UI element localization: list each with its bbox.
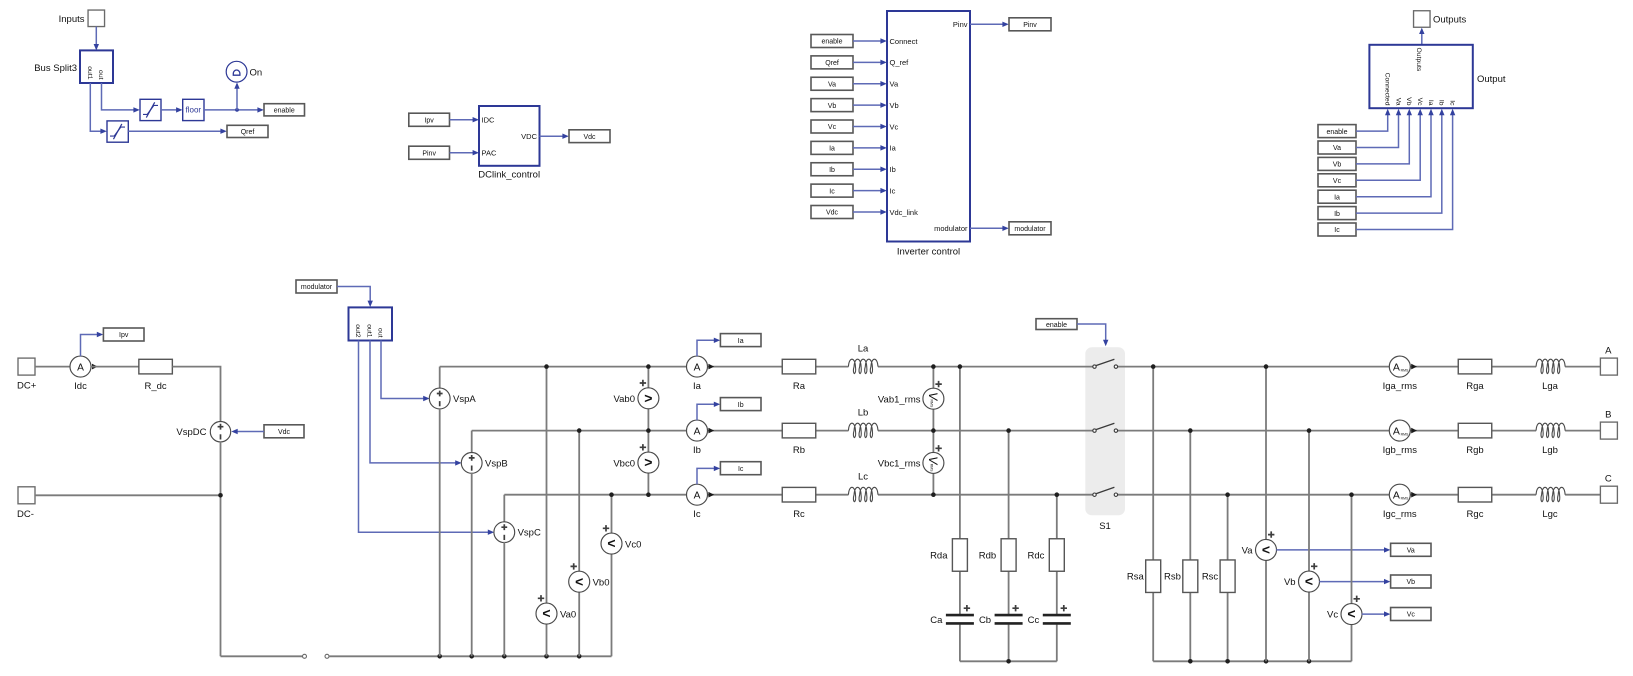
current arrow after Igc_rms: [1411, 492, 1417, 498]
wire row B left of S1: [472, 430, 1093, 432]
svg-text:enable: enable: [1046, 322, 1067, 329]
svg-text:>: >: [644, 454, 652, 470]
junction row B Vbc1: [931, 428, 936, 433]
wire Vc to Inverter control: [853, 124, 887, 129]
svg-text:Output: Output: [1477, 74, 1506, 85]
junction row Rsb: [1188, 428, 1193, 433]
wire enable to S1: [1077, 324, 1108, 346]
junction right rail Vb: [1307, 659, 1312, 664]
ammeter Igb_rms: [1383, 420, 1418, 456]
svg-text:Ipv: Ipv: [424, 117, 434, 124]
junction row A Va0: [544, 364, 549, 369]
wire VspB to row B: [471, 431, 473, 454]
svg-text:out1: out1: [366, 324, 373, 337]
goto tag Pinv: [1009, 18, 1051, 31]
ammeter Igc_rms: [1383, 484, 1417, 520]
wire row A left of S1: [440, 366, 1093, 368]
current arrow after Ic: [708, 492, 714, 498]
from tag Va (output section): [1318, 141, 1356, 154]
svg-text:<: <: [1347, 606, 1355, 622]
svg-text:Vab0: Vab0: [614, 394, 635, 405]
wire Vb into Output block: [1356, 109, 1412, 164]
svg-text:Ia: Ia: [829, 146, 835, 153]
from tag Qref (inverter control input): [811, 56, 853, 69]
port DC-: [17, 487, 35, 520]
svg-text:Vdc_link: Vdc_link: [890, 208, 919, 217]
wire row A right of S1: [1118, 366, 1600, 368]
goto tag Vdc: [569, 130, 610, 143]
svg-text:DClink_control: DClink_control: [478, 170, 540, 181]
svg-text:Vb0: Vb0: [593, 577, 610, 588]
wire Rsb branch: [1189, 431, 1191, 662]
wire DClink_control VDC to Vdc tag: [540, 134, 569, 139]
wire Rdb branch: [1008, 431, 1010, 662]
svg-text:Ic: Ic: [738, 466, 744, 473]
svg-text:enable: enable: [274, 108, 295, 115]
bottom rail mid segment: [329, 655, 612, 657]
demux block (modulator split): [349, 307, 393, 340]
svg-text:Ib: Ib: [1438, 100, 1445, 106]
wire Idc to Ipv tag: [81, 332, 104, 357]
junction row B Vb0: [577, 428, 582, 433]
svg-text:Cc: Cc: [1028, 615, 1040, 626]
junction rail Vb0: [577, 654, 582, 659]
wire Pinv to DClink_control: [450, 150, 480, 155]
resistor R_dc: [139, 359, 173, 392]
switch group S1 background: [1085, 347, 1125, 515]
resistor Rgb: [1458, 423, 1492, 456]
from tag Vdc (dc source ref): [264, 425, 304, 438]
svg-text:<: <: [1262, 542, 1270, 558]
svg-text:Ra: Ra: [793, 381, 806, 392]
from tag Ic (inverter control input): [811, 184, 853, 197]
wire saturation2 to Qref tag: [128, 129, 227, 134]
svg-text:Ib: Ib: [693, 445, 701, 456]
from tag Vc (inverter control input): [811, 120, 853, 133]
wire row C right of S1: [1118, 494, 1600, 496]
svg-text:Va: Va: [828, 81, 836, 88]
subsystem Bus Split3: [34, 50, 113, 83]
goto tag Ia: [720, 334, 761, 347]
capacitor Ca: [930, 605, 974, 626]
voltmeter Vbc0: [613, 444, 659, 473]
svg-text:Vc: Vc: [1416, 98, 1423, 107]
svg-text:Ib: Ib: [1334, 211, 1340, 218]
svg-text:out: out: [377, 328, 384, 338]
svg-text:RMS: RMS: [1401, 497, 1409, 501]
svg-text:Rc: Rc: [793, 509, 805, 520]
voltage source VspC: [494, 522, 541, 543]
svg-text:B: B: [1605, 409, 1611, 420]
wire Pinv out: [970, 22, 1009, 27]
svg-text:>: >: [644, 390, 652, 406]
svg-text:Va: Va: [1394, 98, 1401, 106]
goto tag Qref: [227, 125, 268, 137]
svg-text:Lgc: Lgc: [1542, 509, 1558, 520]
svg-text:Inverter control: Inverter control: [897, 246, 960, 257]
wire Ia into Output block: [1356, 109, 1434, 197]
svg-text:A: A: [694, 362, 701, 373]
wire Rdc branch: [1056, 495, 1058, 662]
svg-text:Outputs: Outputs: [1415, 48, 1422, 72]
svg-text:C: C: [1605, 473, 1612, 484]
wire Ia to Inverter control: [853, 145, 887, 150]
subsystem DClink_control: [478, 106, 540, 181]
wire R_dc to VspDC: [172, 367, 220, 422]
svg-text:Pinv: Pinv: [953, 20, 968, 29]
from tag Ic (output section): [1318, 223, 1356, 236]
subsystem Inverter control: [887, 11, 970, 257]
wire Vb to tag: [1319, 579, 1390, 584]
wire Ic to Inverter control: [853, 188, 887, 193]
wire Vc to tag: [1362, 611, 1391, 616]
voltmeter Vab1_rms: [878, 381, 944, 409]
wire modulator to demux: [337, 287, 373, 308]
wire Vb branch: [1308, 431, 1310, 662]
svg-text:enable: enable: [821, 39, 842, 46]
from tag enable (output section): [1318, 125, 1356, 138]
wire DC- to node: [35, 494, 221, 496]
wire Va to Inverter control: [853, 81, 887, 86]
svg-text:Q_ref: Q_ref: [890, 58, 910, 67]
wire floor to enable tag: [204, 107, 264, 112]
wire enable to Inverter control: [853, 38, 887, 43]
junction right rail Rsc: [1225, 659, 1230, 664]
ammeter Idc: [70, 356, 91, 392]
resistor Rda: [930, 539, 967, 572]
svg-text:modulator: modulator: [301, 284, 333, 291]
svg-text:Vb: Vb: [828, 103, 837, 110]
svg-text:Idc: Idc: [74, 381, 87, 392]
goto tag Vb: [1391, 575, 1431, 588]
junction row Vc: [1349, 492, 1354, 497]
junction row Rdb: [1006, 428, 1011, 433]
resistor Rdc: [1027, 539, 1064, 572]
voltmeter Vc0: [601, 525, 641, 554]
switch S1 phase b: [1093, 423, 1118, 432]
wire Idc to R_dc: [91, 366, 140, 368]
voltmeter Vb: [1284, 563, 1320, 592]
svg-text:Rsa: Rsa: [1127, 572, 1145, 583]
wire Vbc0 branch: [647, 431, 649, 495]
junction row Va: [1264, 364, 1269, 369]
wire Vbc1_rms branch: [932, 431, 934, 495]
svg-text:Ipv: Ipv: [119, 332, 129, 339]
subsystem Output: [1369, 45, 1505, 108]
junction row Rsa: [1151, 364, 1156, 369]
svg-text:Ic: Ic: [890, 186, 896, 195]
svg-text:Rgc: Rgc: [1467, 509, 1484, 520]
wire Ib to tag: [697, 402, 720, 421]
from tag Ia (inverter control input): [811, 141, 853, 154]
wire row C left of S1: [504, 494, 1093, 496]
junction row B Vbc0: [646, 428, 651, 433]
svg-text:Igb_rms: Igb_rms: [1383, 445, 1418, 456]
open terminal right: [325, 654, 329, 658]
wire Vab1_rms branch: [932, 367, 934, 431]
svg-text:Qref: Qref: [825, 60, 839, 67]
inductor Lb: [848, 408, 878, 438]
svg-text:<: <: [607, 535, 615, 551]
svg-text:PAC: PAC: [482, 149, 497, 158]
junction row Rsc: [1225, 492, 1230, 497]
resistor Rsa: [1127, 560, 1161, 593]
svg-text:Ib: Ib: [829, 167, 835, 174]
capacitor bottom rail: [960, 660, 1057, 662]
label S1: [1099, 521, 1111, 532]
wire Vb0 branch: [578, 431, 580, 657]
voltmeter Va: [1242, 531, 1277, 560]
svg-text:out: out: [97, 70, 104, 80]
capacitor Cc: [1028, 605, 1071, 626]
wire Vdc tag to VspDC: [231, 429, 264, 434]
svg-text:Vdc: Vdc: [583, 134, 596, 141]
wire saturation1 to floor: [161, 107, 183, 112]
svg-text:Qref: Qref: [241, 129, 255, 136]
wire branch to scope On: [234, 82, 239, 110]
svg-text:Lgb: Lgb: [1542, 445, 1558, 456]
svg-text:Va: Va: [890, 80, 899, 89]
wire Ic to tag: [697, 466, 720, 485]
svg-text:VspDC: VspDC: [176, 427, 206, 438]
svg-text:Ic: Ic: [1334, 227, 1340, 234]
wire Ipv to DClink_control: [450, 117, 480, 122]
svg-text:On: On: [250, 68, 263, 79]
from tag Ib (inverter control input): [811, 163, 853, 176]
ammeter Ib: [687, 420, 708, 456]
outport Outputs: [1414, 11, 1467, 28]
svg-text:Ic: Ic: [1448, 100, 1455, 106]
resistor Rgc: [1458, 487, 1492, 520]
from tag Vdc (inverter control input): [811, 206, 853, 219]
wire Ib to Inverter control: [853, 167, 887, 172]
svg-text:A: A: [694, 490, 701, 501]
svg-text:Va: Va: [1333, 145, 1341, 152]
svg-text:<: <: [542, 605, 550, 621]
svg-text:Ia: Ia: [738, 338, 744, 345]
resistor Rga: [1458, 359, 1492, 392]
junction row C Vc0: [609, 492, 614, 497]
svg-text:La: La: [858, 344, 869, 355]
svg-text:Ic: Ic: [829, 188, 835, 195]
wire demux out1 to VspB: [370, 341, 462, 466]
ammeter Iga_rms: [1383, 356, 1418, 392]
junction row A Vab1: [931, 364, 936, 369]
svg-text:Ia: Ia: [1334, 194, 1340, 201]
wire Va branch: [1265, 367, 1267, 662]
wire Va into Output block: [1356, 109, 1401, 148]
wire VspA to row A: [439, 367, 441, 389]
svg-text:Vc: Vc: [828, 124, 837, 131]
right bottom rail: [1153, 660, 1351, 662]
voltmeter Vbc1_rms: [878, 445, 944, 473]
junction row C Vbc1: [931, 492, 936, 497]
inductor Lc: [848, 472, 878, 502]
bottom rail left segment: [221, 655, 303, 657]
from tag Ipv: [409, 113, 450, 126]
svg-text:VspA: VspA: [453, 394, 476, 405]
junction rail VspC: [502, 654, 507, 659]
wire VspC to row C: [503, 495, 505, 523]
svg-text:Outputs: Outputs: [1433, 15, 1467, 26]
port DC+: [17, 358, 37, 391]
scope On: [226, 61, 262, 82]
svg-text:Vbc0: Vbc0: [613, 458, 635, 469]
from tag Pinv: [409, 146, 450, 159]
inport Inputs: [59, 10, 105, 27]
wire Bus Split3 out to saturation1: [102, 83, 140, 113]
wire Ia to tag: [697, 338, 720, 357]
svg-text:Rsb: Rsb: [1164, 572, 1181, 583]
voltmeter Vb0: [569, 563, 610, 592]
svg-text:Ia: Ia: [1427, 100, 1434, 106]
svg-text:VspB: VspB: [485, 458, 508, 469]
goto tag Vc: [1391, 608, 1431, 621]
resistor Rc: [782, 487, 816, 520]
svg-text:Inputs: Inputs: [59, 14, 85, 25]
wire VspB to bottom rail: [471, 473, 473, 657]
svg-text:Vc: Vc: [890, 122, 899, 131]
wire Ib into Output block: [1356, 109, 1445, 213]
svg-text:Pinv: Pinv: [1023, 22, 1037, 29]
voltmeter Vc: [1327, 596, 1362, 625]
junction right rail Rsb: [1188, 659, 1193, 664]
goto tag modulator: [1009, 222, 1051, 235]
wire enable into Output block: [1356, 109, 1390, 131]
svg-text:Rga: Rga: [1466, 381, 1484, 392]
svg-text:modulator: modulator: [1014, 226, 1046, 233]
svg-text:Rdc: Rdc: [1027, 551, 1044, 562]
svg-text:Ca: Ca: [930, 615, 943, 626]
from tag Ia (output section): [1318, 190, 1356, 203]
wire demux out2 to VspC: [359, 341, 495, 535]
svg-text:IDC: IDC: [482, 116, 496, 125]
voltmeter Va0: [536, 595, 576, 624]
svg-text:Connected: Connected: [1384, 73, 1391, 106]
wire Vb to Inverter control: [853, 102, 887, 107]
svg-text:Vb: Vb: [890, 101, 899, 110]
block floor: [183, 99, 204, 120]
svg-text:R_dc: R_dc: [145, 381, 167, 392]
svg-text:RMS: RMS: [1401, 432, 1409, 436]
svg-text:Vdc: Vdc: [826, 210, 839, 217]
resistor Rsb: [1164, 560, 1198, 593]
svg-text:RMS: RMS: [1401, 368, 1409, 372]
wire row B right of S1: [1118, 430, 1600, 432]
current arrow after Ia: [708, 364, 714, 370]
svg-text:<: <: [1305, 573, 1313, 589]
ammeter Ia: [687, 356, 708, 392]
from tag Vb (output section): [1318, 157, 1356, 170]
wire modulator out: [970, 226, 1009, 231]
junction rail VspB: [469, 654, 474, 659]
svg-text:Rdb: Rdb: [979, 551, 996, 562]
svg-text:VspC: VspC: [518, 528, 541, 539]
svg-text:Ia: Ia: [693, 381, 702, 392]
wire Vc branch: [1351, 495, 1353, 662]
svg-text:Igc_rms: Igc_rms: [1383, 509, 1417, 520]
svg-text:Rgb: Rgb: [1466, 445, 1483, 456]
svg-text:Cb: Cb: [979, 615, 991, 626]
wire Rda branch: [959, 367, 961, 662]
svg-text:Connect: Connect: [890, 37, 919, 46]
svg-text:RMS: RMS: [930, 464, 934, 472]
junction rail Va0: [544, 654, 549, 659]
open terminal left: [303, 654, 307, 658]
switch S1 phase a: [1093, 359, 1118, 368]
svg-text:Vc0: Vc0: [625, 539, 641, 550]
inductor Lga: [1536, 359, 1565, 392]
svg-text:Va0: Va0: [560, 609, 576, 620]
svg-text:modulator: modulator: [934, 224, 968, 233]
svg-text:A: A: [1393, 362, 1400, 374]
svg-text:RMS: RMS: [930, 400, 934, 408]
current arrow after Idc: [92, 364, 98, 370]
saturation block 2: [107, 121, 128, 142]
svg-text:Vab1_rms: Vab1_rms: [878, 394, 921, 405]
svg-text:Pinv: Pinv: [422, 150, 436, 157]
voltage source VspA: [429, 388, 476, 409]
junction row A Vab0: [646, 364, 651, 369]
capacitor Cb: [979, 605, 1023, 626]
from tag Vb (inverter control input): [811, 99, 853, 112]
svg-text:Rb: Rb: [793, 445, 805, 456]
svg-text:out2: out2: [354, 324, 361, 337]
from tag Vc (output section): [1318, 174, 1356, 187]
svg-text:out1: out1: [86, 66, 93, 79]
switch S1 phase c: [1093, 487, 1118, 496]
svg-text:VDC: VDC: [521, 132, 537, 141]
svg-text:<: <: [575, 573, 583, 589]
svg-text:Va: Va: [1407, 548, 1415, 555]
junction row Rdc: [1055, 492, 1060, 497]
voltage source VspB: [461, 453, 507, 474]
wire VspA to bottom rail: [439, 408, 441, 656]
svg-text:Va: Va: [1242, 545, 1254, 556]
wire Vc0 branch: [611, 495, 613, 657]
svg-text:enable: enable: [1326, 129, 1347, 136]
goto tag Ib: [720, 398, 761, 411]
svg-text:floor: floor: [186, 106, 202, 115]
svg-text:Iga_rms: Iga_rms: [1383, 381, 1418, 392]
svg-text:Vb: Vb: [1284, 577, 1296, 588]
goto tag Va: [1391, 543, 1431, 556]
current arrow after Ib: [708, 428, 714, 434]
svg-text:Bus Split3: Bus Split3: [34, 63, 77, 74]
junction right rail Va: [1264, 659, 1269, 664]
svg-text:Vdc: Vdc: [278, 429, 291, 436]
wire VspDC to bottom rail: [220, 442, 222, 656]
svg-text:DC-: DC-: [17, 509, 34, 520]
svg-text:A: A: [77, 362, 84, 373]
wire Va0 branch: [546, 367, 548, 657]
resistor Rsc: [1202, 560, 1235, 593]
svg-text:A: A: [1393, 490, 1400, 502]
goto tag enable: [264, 104, 305, 116]
svg-text:Vb: Vb: [1405, 97, 1412, 106]
goto tag Ic: [720, 462, 761, 475]
wire DC+ to Idc: [35, 366, 70, 368]
wire Qref to Inverter control: [853, 60, 887, 65]
voltmeter Vab0: [614, 380, 659, 409]
wire Vab0 branch: [647, 367, 649, 431]
svg-text:Vbc1_rms: Vbc1_rms: [878, 459, 921, 470]
svg-text:Vb: Vb: [1333, 162, 1342, 169]
svg-text:Lga: Lga: [1542, 381, 1559, 392]
wire VspC to bottom rail: [503, 542, 505, 656]
wire demux out to VspA: [381, 341, 430, 402]
resistor Rdb: [979, 539, 1016, 572]
